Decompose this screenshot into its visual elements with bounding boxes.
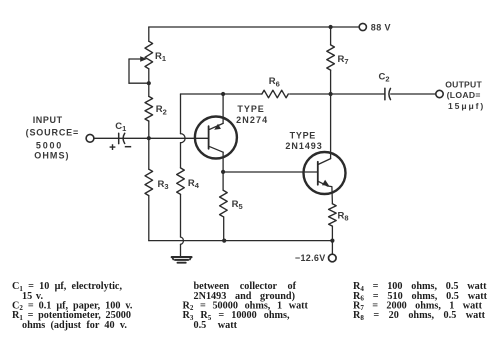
wire Q1 collector down xyxy=(222,152,224,172)
terminal -12.6V xyxy=(329,254,337,262)
junction R7 bottom / y94 line xyxy=(329,92,333,96)
transistor Q1 xyxy=(195,117,237,159)
terminal output xyxy=(436,90,443,97)
capacitor C2 xyxy=(384,88,386,100)
transistor Q2 xyxy=(304,152,346,194)
junction input wire / left rail xyxy=(147,136,151,140)
Q1 collector diagonal xyxy=(209,146,224,152)
wire pot loop horizontal xyxy=(129,82,149,84)
svg-text:R2: R2 xyxy=(156,104,167,116)
wire R7 top segment xyxy=(330,27,332,45)
svg-text:5000: 5000 xyxy=(36,140,62,150)
label C1 minus xyxy=(125,146,131,148)
resistor R2 xyxy=(145,96,153,121)
wire R7 bottom segment xyxy=(330,70,332,94)
svg-text:INPUT: INPUT xyxy=(33,115,63,125)
svg-text:R6: R6 xyxy=(269,76,280,88)
wire input to C1 xyxy=(94,137,209,139)
input terminal xyxy=(86,134,94,142)
Q1 emitter arrow xyxy=(214,124,221,130)
wire hop to ground xyxy=(180,244,182,256)
svg-text:R8 = 20 ohms, 0.5 watt: R8 = 20 ohms, 0.5 watt xyxy=(353,310,486,322)
wire bottom rail xyxy=(149,240,333,242)
resistor R1 xyxy=(145,41,153,69)
wire Q2 emitter to R8 xyxy=(328,186,333,204)
Q2 collector diagonal xyxy=(318,159,331,165)
svg-text:R8: R8 xyxy=(338,211,349,223)
Q1 emitter diagonal xyxy=(209,123,224,129)
svg-text:R7: R7 xyxy=(338,54,349,66)
junction R7 top / top rail xyxy=(329,25,333,29)
junction R5 / bottom rail xyxy=(222,239,226,243)
svg-text:R3: R3 xyxy=(158,179,169,191)
svg-text:TYPE: TYPE xyxy=(237,104,265,114)
resistor R4 xyxy=(177,168,185,194)
svg-text:ohms (adjust for 40 v.: ohms (adjust for 40 v. xyxy=(22,320,127,331)
svg-text:2N1493: 2N1493 xyxy=(285,141,322,151)
label C1 plus xyxy=(110,144,116,150)
potentiometer wiper arrow R1 xyxy=(129,58,141,60)
wire to -12.6V terminal xyxy=(331,241,333,255)
wire hop over input wire xyxy=(181,134,186,143)
wire R4 branch top (y94 line left end corner) xyxy=(180,94,182,134)
svg-text:−12.6V: −12.6V xyxy=(295,253,326,263)
wire left rail R2 to input xyxy=(148,121,150,138)
resistor R6 xyxy=(262,90,288,98)
wire Q2 collector up xyxy=(330,94,332,159)
svg-text:2N274: 2N274 xyxy=(236,115,268,125)
svg-text:R1: R1 xyxy=(155,51,166,63)
wire left rail R3 to bottom xyxy=(148,196,150,241)
wire R4 to bottom hop xyxy=(180,194,182,237)
wire R5 top segment xyxy=(222,172,224,191)
Q2 emitter arrow xyxy=(322,180,329,186)
wire y94 output line left xyxy=(181,93,262,95)
svg-text:(LOAD=: (LOAD= xyxy=(447,90,481,100)
Q1 base bar xyxy=(208,126,210,149)
wire R8 to bottom rail xyxy=(331,226,333,240)
wire Q2 base xyxy=(223,171,318,173)
svg-text:C1: C1 xyxy=(115,121,126,133)
wire C2 to output terminal xyxy=(391,93,436,95)
terminal 88V xyxy=(359,23,366,30)
wire left rail top segment xyxy=(148,27,150,41)
wire left rail input to R3 xyxy=(148,138,150,169)
junction Q1 emitter / y94 line xyxy=(221,92,225,96)
resistor R7 xyxy=(327,45,335,70)
svg-text:(SOURCE=: (SOURCE= xyxy=(26,128,79,138)
resistor R5 xyxy=(220,190,228,216)
wire hop to R4 xyxy=(180,143,182,168)
svg-text:TYPE: TYPE xyxy=(290,131,317,141)
svg-text:OUTPUT: OUTPUT xyxy=(445,79,482,89)
wire y94 output line middle xyxy=(290,93,385,95)
junction R8 / bottom rail / -12.6V xyxy=(330,239,334,243)
svg-text:88 V: 88 V xyxy=(371,22,391,32)
wire R5 bottom segment xyxy=(223,217,225,241)
wire Q1 emitter up xyxy=(222,94,224,123)
svg-text:OHMS): OHMS) xyxy=(34,151,69,161)
wire hop over bottom rail xyxy=(181,237,184,244)
svg-text:R5: R5 xyxy=(232,199,243,211)
svg-text:15μμf): 15μμf) xyxy=(448,101,484,111)
ground xyxy=(172,257,192,263)
capacitor C1 xyxy=(118,133,120,143)
resistor R8 xyxy=(329,204,337,226)
Q2 emitter diagonal xyxy=(318,181,328,186)
junction Q1 collector / R5 / Q2 base xyxy=(221,170,225,174)
junction pot loop xyxy=(147,81,151,85)
Q2 base bar xyxy=(317,162,319,185)
svg-text:R4: R4 xyxy=(188,178,200,190)
wire pot loop vertical xyxy=(128,59,130,83)
svg-text:0.5 watt: 0.5 watt xyxy=(194,320,238,331)
svg-text:C2: C2 xyxy=(379,72,390,84)
wire top rail xyxy=(149,26,359,28)
resistor R3 xyxy=(145,169,153,195)
wire left rail R1 to R2 xyxy=(148,69,150,97)
